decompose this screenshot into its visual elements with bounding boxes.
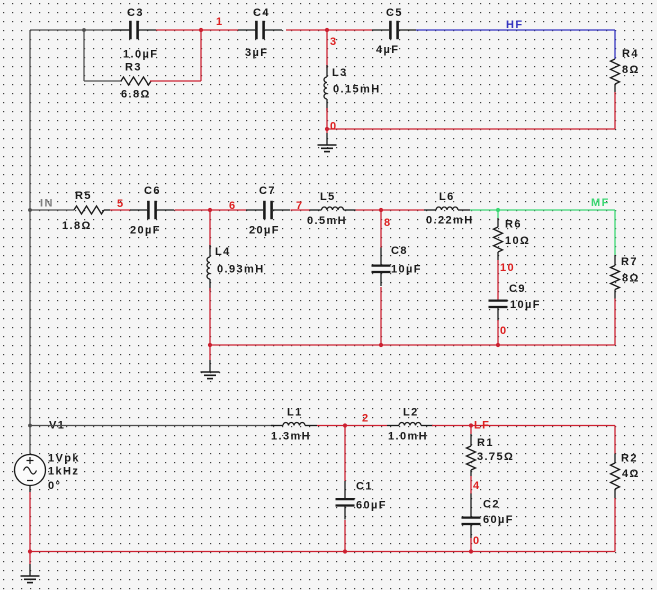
resistor R2 — [611, 463, 620, 489]
mid bus junction C8 — [379, 343, 383, 347]
wire ground stub mid — [209, 345, 211, 360]
svg-text:4µF: 4µF — [376, 44, 399, 56]
svg-text:IN: IN — [40, 198, 54, 210]
node 1 junction — [199, 28, 203, 32]
svg-text:C9: C9 — [509, 283, 526, 295]
capacitor C8 — [372, 266, 391, 272]
resistor R7 — [611, 266, 620, 290]
svg-text:1kHz: 1kHz — [48, 466, 79, 478]
resistor R1 — [467, 446, 476, 470]
wire bottom bus node 0 — [30, 551, 615, 553]
node 6 junction — [208, 208, 212, 212]
bottom bus junction C1 — [343, 549, 347, 553]
node MF junction — [496, 208, 500, 212]
wire ground stub bottom — [29, 552, 31, 565]
wire C9 to mid bus — [497, 320, 499, 345]
svg-text:6.8Ω: 6.8Ω — [121, 89, 151, 101]
wire R7 bottom lead — [614, 290, 616, 299]
capacitor C3 — [130, 21, 137, 39]
wire node 5 — [110, 209, 131, 211]
wire node 8 horizontal — [356, 209, 425, 211]
wire R4 lead black — [614, 84, 616, 92]
svg-text:4Ω: 4Ω — [622, 468, 640, 480]
wire node 4 — [470, 476, 472, 494]
svg-text:R4: R4 — [622, 48, 639, 60]
svg-text:C1: C1 — [356, 481, 373, 493]
svg-text:R1: R1 — [477, 437, 494, 449]
capacitor C5 — [390, 21, 397, 39]
svg-text:R2: R2 — [621, 453, 638, 465]
svg-text:0.5mH: 0.5mH — [307, 215, 347, 227]
svg-text:R5: R5 — [75, 190, 92, 202]
svg-text:L3: L3 — [332, 67, 348, 79]
wire R6 bottom lead — [497, 252, 499, 260]
wire node 6 left — [175, 209, 211, 211]
capacitor C2 — [462, 518, 481, 524]
svg-text:1Vpk: 1Vpk — [48, 453, 80, 465]
resistor R6 top lead — [497, 218, 499, 227]
svg-text:60µF: 60µF — [483, 514, 514, 526]
wire L3 to node 0 — [326, 108, 328, 129]
svg-text:10: 10 — [500, 262, 515, 274]
wire L4 to mid bus — [209, 288, 211, 345]
mid bus junction C9 — [496, 343, 500, 347]
wire IN to R5 — [30, 209, 74, 211]
ground bottom — [29, 564, 31, 576]
svg-text:C7: C7 — [259, 185, 276, 197]
svg-text:MF: MF — [591, 197, 610, 209]
svg-text:7: 7 — [296, 200, 304, 212]
svg-text:0.15mH: 0.15mH — [333, 84, 381, 96]
resistor R4 — [611, 59, 620, 84]
svg-text:1: 1 — [216, 16, 224, 28]
resistor R1 top lead — [470, 434, 472, 446]
inductor L4 top lead red — [209, 210, 211, 249]
wire node 2 left — [317, 425, 387, 427]
inductor L2 — [387, 425, 399, 427]
wire top from rail to C3 — [30, 29, 130, 31]
wire R2 to bottom bus — [614, 498, 616, 552]
svg-text:HF: HF — [506, 19, 523, 31]
wire LF vertical right — [614, 426, 616, 454]
inductor L4 — [209, 245, 211, 257]
svg-text:L4: L4 — [215, 246, 231, 258]
inductor L3 top lead red — [326, 30, 328, 68]
node junction R3 branch top — [82, 28, 86, 32]
capacitor C4 — [256, 21, 263, 39]
resistor R3 — [121, 77, 151, 85]
node LF junction — [469, 423, 473, 427]
svg-text:10µF: 10µF — [391, 264, 422, 276]
ground mid — [209, 360, 211, 372]
svg-text:1.0mH: 1.0mH — [388, 431, 428, 443]
capacitor C7 — [264, 201, 271, 219]
wire V1 to bottom bus — [29, 492, 31, 552]
resistor R6 — [494, 227, 503, 252]
mid bus junction L4 — [208, 343, 212, 347]
inductor L3 — [326, 65, 328, 77]
wire ground stub top — [326, 129, 328, 133]
wire R7 to mid bus — [614, 299, 616, 346]
node 0 junction top — [325, 127, 329, 131]
svg-text:0: 0 — [473, 535, 481, 547]
svg-text:L2: L2 — [403, 407, 419, 419]
wire node 1 horizontal — [156, 29, 238, 31]
svg-text:8Ω: 8Ω — [622, 273, 640, 285]
wire R1 red stub — [470, 426, 472, 435]
bottom bus junction C2 — [469, 549, 473, 553]
node 3 junction — [325, 28, 329, 32]
wire node 7 — [291, 209, 311, 211]
svg-text:L1: L1 — [287, 407, 303, 419]
svg-text:R6: R6 — [505, 219, 522, 231]
svg-text:C3: C3 — [127, 7, 144, 19]
wire HF blue vertical — [614, 30, 616, 59]
resistor R5 — [74, 206, 104, 214]
svg-text:0°: 0° — [48, 480, 61, 492]
wire C1 to bottom bus — [344, 520, 346, 552]
wire C2 to bottom bus — [470, 538, 472, 552]
wire V1 to L1 — [30, 425, 274, 427]
wire node 1 vertical — [200, 30, 202, 81]
svg-text:C8: C8 — [391, 245, 408, 257]
wire R1 bottom lead — [470, 470, 472, 476]
wire MF green vertical — [614, 210, 616, 255]
wire C8 to mid bus — [380, 287, 382, 345]
resistor R2 top lead — [614, 454, 616, 464]
svg-text:10Ω: 10Ω — [505, 235, 530, 247]
node 8 junction — [379, 208, 383, 212]
node V1 junction — [28, 424, 32, 428]
node 2 junction — [343, 423, 347, 427]
wire R3 branch left lead — [84, 80, 122, 82]
svg-text:8Ω: 8Ω — [622, 64, 640, 76]
svg-text:LF: LF — [474, 420, 490, 432]
bottom bus junction V1 — [28, 549, 32, 553]
svg-text:3.75Ω: 3.75Ω — [477, 451, 514, 463]
capacitor C6 — [148, 201, 155, 219]
svg-text:0: 0 — [330, 121, 338, 133]
svg-text:2: 2 — [362, 413, 370, 425]
wire R2 bottom lead — [614, 489, 616, 498]
wire node 0 top bus — [327, 128, 615, 130]
wire V1 bottom lead — [29, 486, 31, 492]
svg-text:10µF: 10µF — [510, 299, 541, 311]
wire node 10 — [497, 260, 499, 300]
svg-text:1.0µF: 1.0µF — [123, 49, 158, 61]
svg-text:3: 3 — [330, 36, 338, 48]
wire R6 green stub — [497, 210, 499, 218]
svg-text:1.8Ω: 1.8Ω — [62, 220, 92, 232]
resistor R7 top lead — [614, 255, 616, 266]
svg-text:C4: C4 — [253, 7, 270, 19]
svg-text:R3: R3 — [125, 62, 142, 74]
svg-text:L6: L6 — [439, 191, 455, 203]
svg-text:5: 5 — [117, 198, 125, 210]
wire input rail vertical — [29, 30, 31, 454]
svg-text:R7: R7 — [621, 256, 638, 268]
wire node 2 vertical to C1 — [344, 426, 346, 482]
wire R4 to node 0 red — [614, 92, 616, 129]
wire R3 branch down — [83, 30, 85, 81]
wire node 3 horizontal — [286, 29, 372, 31]
svg-text:C5: C5 — [386, 7, 403, 19]
wire MF green horizontal — [470, 209, 615, 211]
inductor L6 — [424, 209, 436, 211]
capacitor C9 — [489, 301, 508, 307]
svg-text:0: 0 — [500, 325, 508, 337]
svg-text:C6: C6 — [144, 185, 161, 197]
svg-text:3µF: 3µF — [245, 47, 268, 59]
wire node 8 vertical to C8 — [380, 210, 382, 248]
wire HF blue horizontal — [416, 29, 615, 31]
source V1 — [15, 455, 46, 486]
svg-text:1.3mH: 1.3mH — [271, 431, 311, 443]
wire mid bus node 0 — [210, 344, 615, 346]
svg-text:L5: L5 — [320, 191, 336, 203]
svg-text:60µF: 60µF — [356, 500, 387, 512]
svg-text:0.93mH: 0.93mH — [217, 264, 265, 276]
capacitor C1 — [336, 499, 355, 505]
wire R5 lead — [104, 209, 110, 211]
wire node LF horizontal — [432, 425, 615, 427]
svg-text:20µF: 20µF — [249, 225, 280, 237]
svg-text:8: 8 — [384, 217, 392, 229]
svg-text:C2: C2 — [483, 499, 500, 511]
ground top — [326, 133, 328, 145]
node IN junction — [28, 208, 32, 212]
inductor L5 — [310, 209, 322, 211]
wire R3 to node 1 red — [150, 80, 201, 82]
svg-text:4: 4 — [473, 480, 481, 492]
inductor L1 — [271, 425, 283, 427]
svg-text:0.22mH: 0.22mH — [426, 215, 474, 227]
svg-text:20µF: 20µF — [130, 225, 161, 237]
wire node 6 right — [210, 209, 247, 211]
